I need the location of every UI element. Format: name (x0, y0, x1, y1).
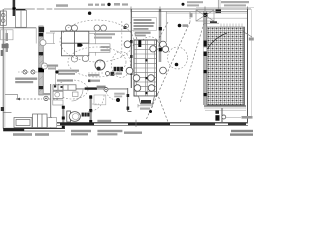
kitchen counter dark blobs (54, 85, 56, 87)
tick row above grid (221, 24, 242, 28)
dark arrow symbol on table (77, 43, 83, 46)
small text near wall (190, 13, 193, 17)
small box right of cabinets (48, 118, 57, 128)
text right of dot (183, 24, 189, 27)
desk chairs right (160, 41, 167, 74)
wall lower right of toilet block (127, 88, 129, 112)
dashed diagonal sight line A (146, 22, 190, 120)
ceiling dot below end table (149, 110, 152, 113)
box bottom-left 2 (33, 114, 48, 128)
dashed ellipse kitchen (56, 80, 88, 99)
toilet block top wall (57, 88, 128, 90)
ceiling dot top right (182, 3, 185, 6)
desk center blobs (145, 59, 147, 61)
step line left of toilet area (5, 95, 18, 100)
top-left wall stub (12, 0, 15, 16)
note box top middle (132, 17, 157, 30)
dashed line mid (88, 72, 104, 74)
chair pair 2 on table line (94, 25, 107, 31)
meeting table (62, 31, 89, 56)
bottom wall left band (3, 128, 65, 131)
dashed diagonal sight line B (131, 22, 169, 122)
leader end dot (55, 70, 58, 73)
line above grid right (207, 17, 248, 19)
sink unit box (53, 91, 63, 98)
door wall below grid (221, 108, 223, 122)
dark blob left border (1, 107, 4, 111)
closet inner lines (46, 32, 55, 34)
left border wall (2, 9, 4, 129)
desk dark column top (138, 40, 141, 47)
office label sub (116, 73, 123, 75)
circle symbol on wall 2 (42, 63, 48, 69)
grid ticks on top line (131, 7, 248, 13)
top-left cabinet box (0, 11, 6, 25)
tatami/deck grid area (207, 27, 245, 105)
line above grid (204, 22, 219, 24)
chairs below table (71, 55, 88, 62)
right border wall (247, 9, 249, 122)
desk island (134, 40, 157, 96)
leader to text right (226, 117, 241, 119)
sink circle (55, 92, 60, 97)
service corridor lines (44, 65, 56, 67)
office label 事務所 (114, 67, 123, 71)
storage text (114, 93, 125, 98)
top-left closet box (15, 10, 26, 27)
fixture cluster (106, 72, 110, 76)
wall between office and open zone (130, 9, 132, 88)
top wall line (131, 10, 248, 12)
chair pair 1 on table line (66, 25, 78, 31)
text annotations left area (15, 70, 79, 87)
storage room box (94, 95, 106, 105)
dashed partition line vertical (121, 21, 123, 58)
line inside left rooms (35, 28, 37, 44)
right margin leader (243, 32, 252, 38)
end table below desk (138, 96, 155, 110)
cabinet bottom-left (14, 118, 32, 128)
bottom text mid2 (97, 130, 122, 136)
dashed arrow line y=99 (16, 96, 58, 100)
ceiling dot right of desks (178, 24, 182, 28)
blobs on office wall (130, 40, 132, 43)
chairs at head of desk (150, 46, 169, 53)
grid bottom wall (204, 105, 246, 107)
dark column box top right (216, 10, 222, 14)
dashed arc from storage dot (106, 92, 116, 100)
bottom text mid1 (71, 130, 91, 136)
toilet block top dark bar (85, 87, 97, 89)
service room left wall (50, 84, 52, 129)
dark segment above grid (210, 21, 217, 23)
right margin dimension line (251, 9, 253, 118)
top border light line right (196, 6, 254, 8)
text under note box (135, 32, 151, 37)
small circle on office wall (125, 24, 129, 28)
tick through band (135, 120, 137, 127)
ceiling dot above chairs (88, 12, 91, 15)
kitchen counter along wall (53, 85, 76, 90)
ceiling dot storage (116, 98, 120, 102)
column base blob (97, 67, 101, 71)
bottom text left (13, 133, 49, 136)
toilet label トイレ (82, 113, 90, 117)
text right below grid (242, 116, 253, 119)
bottom text mid3 (124, 132, 142, 134)
dashed ellipse right open area (168, 47, 188, 69)
emergency light symbols with dashed line y=72 (18, 70, 38, 74)
top-left room wall horizontal (0, 27, 36, 29)
ceiling dot open area (175, 63, 179, 67)
grid right edge dark (243, 27, 245, 105)
left margin vertical text (6, 33, 8, 52)
toilet hatched wall (89, 95, 92, 125)
below grid lines (205, 109, 246, 111)
table front line (50, 30, 131, 32)
small box left room (1, 30, 14, 40)
bottom wall main band (57, 123, 248, 126)
lower box (53, 100, 63, 105)
leader curve in grid (208, 33, 228, 49)
tick dashes x=190 (189, 12, 191, 22)
dark box below grid 2 (215, 115, 219, 121)
round column (95, 60, 105, 70)
top-left cabinet top dark edge (16, 9, 25, 10)
ceiling dot top middle (107, 3, 110, 6)
dashed diagonal sight line C (180, 23, 204, 103)
text left of sink (43, 93, 51, 95)
toilet door arc (72, 90, 84, 102)
shaft wall left of grid (203, 11, 207, 105)
door handle circle (222, 115, 226, 119)
dashed ellipse around office label (112, 52, 131, 78)
thin wall x=166 (165, 11, 167, 42)
dashed coverage ellipse mid (68, 47, 126, 77)
leader text left middle (47, 65, 58, 67)
step at left border (3, 111, 11, 113)
top border line (4, 8, 251, 10)
smoke vent text on band (97, 120, 111, 123)
circle symbol on wall 1 (40, 40, 46, 46)
partition wall x=160 (159, 9, 162, 62)
dark blob near office wall (124, 26, 127, 29)
storage text above (97, 86, 106, 88)
wall squares (69, 88, 72, 91)
table label box (89, 44, 110, 53)
cross-braced box top right (196, 10, 214, 21)
bottom right corner text (230, 130, 253, 136)
side table right of meeting table (89, 31, 96, 56)
door gaps in top line (35, 8, 54, 10)
dark box below grid 1 (215, 111, 219, 114)
circle symbol storage (104, 88, 108, 92)
text block top right (187, 1, 249, 6)
left hatched wall (38, 26, 44, 95)
text above line left (56, 4, 68, 7)
desk end chair cluster (133, 75, 155, 92)
dashed ellipse desk top (141, 37, 159, 53)
dashed diagonal sight line D (133, 22, 168, 85)
column stub top right (217, 0, 219, 9)
text annotation center (room note) (94, 33, 115, 51)
hatched wall beside toilet (62, 106, 65, 130)
top band second line right (166, 12, 248, 14)
desk chairs left (124, 41, 133, 74)
hand sink (73, 92, 79, 97)
dashed coverage ellipse big top (60, 20, 134, 62)
text rows mid (88, 74, 100, 76)
dimension text row above top line (88, 3, 128, 6)
blob on wall (49, 117, 52, 120)
toilet fixture (67, 111, 81, 122)
